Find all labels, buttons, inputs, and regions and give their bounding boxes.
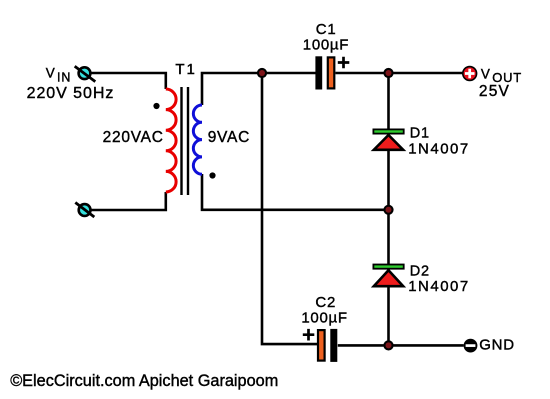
label VOUT <box>481 66 522 84</box>
transformer T1 primary winding 220VAC <box>166 89 176 192</box>
wire secondary bottom lead and middle horizontal to right rail <box>201 174 389 210</box>
svg-text:T1: T1 <box>175 61 197 78</box>
terminal VOUT <box>463 67 477 81</box>
svg-text:1N4007: 1N4007 <box>408 141 470 158</box>
wire right rail from VOUT node down to GND node <box>387 73 390 345</box>
diode D2 cathode bar <box>373 265 403 269</box>
terminal GND <box>464 339 478 353</box>
terminal VIN top <box>75 66 96 81</box>
wire primary bottom lead and bottom-left wire to VIN bottom terminal <box>90 192 167 210</box>
capacitor C2 positive plate <box>318 330 325 361</box>
svg-text:V: V <box>46 66 55 81</box>
svg-text:100µF: 100µF <box>303 36 349 53</box>
svg-text:9VAC: 9VAC <box>208 129 250 146</box>
svg-text:220V 50Hz: 220V 50Hz <box>27 85 115 102</box>
svg-text:100µF: 100µF <box>301 309 347 326</box>
svg-text:V: V <box>481 66 490 81</box>
capacitor C1 100uF negative plate <box>315 56 322 89</box>
primary polarity dot <box>153 103 159 109</box>
svg-text:IN: IN <box>57 71 71 85</box>
svg-text:25V: 25V <box>479 83 510 100</box>
capacitor C2 negative plate <box>330 329 337 362</box>
node junction GND <box>383 340 393 350</box>
svg-text:1N4007: 1N4007 <box>408 278 470 295</box>
svg-text:D1: D1 <box>410 126 430 142</box>
plus sign of C1 <box>338 57 350 69</box>
transformer T1 secondary winding 9VAC <box>193 105 202 174</box>
svg-text:GND: GND <box>479 337 515 354</box>
capacitor C1 positive plate <box>328 57 335 88</box>
wire C2 right plate to GND node and on to GND terminal <box>338 344 464 347</box>
diode D1 cathode bar <box>373 129 403 133</box>
diode D2 triangle <box>374 270 403 286</box>
terminal VIN bottom <box>75 203 94 218</box>
svg-text:220VAC: 220VAC <box>103 129 164 146</box>
transformer T1 core <box>182 87 189 195</box>
wire secondary top lead and top horizontal to C1 left plate <box>201 73 316 105</box>
wire C1 right plate to VOUT node and on to VOUT terminal <box>336 72 464 75</box>
node junction VOUT <box>383 68 393 78</box>
wire vertical rail x262 down to C2 left lead <box>262 73 317 345</box>
svg-text:©ElecCircuit.com Apichet Garai: ©ElecCircuit.com Apichet Garaipoom <box>10 372 278 390</box>
secondary polarity dot <box>209 172 215 178</box>
diode D1 triangle <box>374 135 403 150</box>
node junction on top wire <box>257 68 267 78</box>
label VIN <box>46 66 72 85</box>
plus sign of C2 <box>303 329 315 341</box>
wire top-left from VIN top terminal to primary corner <box>91 73 167 89</box>
node junction middle <box>383 205 393 215</box>
